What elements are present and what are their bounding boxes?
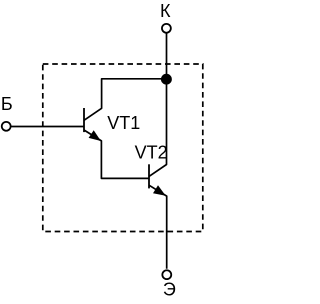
Darlington pair circuit schematic (0, 0, 209, 299)
terminal Б circle (2, 122, 11, 131)
transistor VT2 (149, 164, 167, 268)
wire: К terminal down through junction, VT2 collector (149, 33, 167, 177)
VT2 base bar (148, 164, 150, 188)
VT1 emitter diagonal (84, 130, 149, 178)
terminal К circle (162, 24, 171, 33)
svg-text:VT2: VT2 (135, 143, 168, 163)
wire: Б terminal to VT1 base (11, 126, 84, 128)
VT2 emitter diagonal (149, 185, 167, 269)
svg-text:К: К (160, 1, 171, 21)
svg-text:VT1: VT1 (107, 113, 140, 133)
transistor VT1 (84, 108, 149, 178)
svg-text:Э: Э (163, 280, 176, 299)
svg-text:Б: Б (1, 94, 13, 114)
wire: VT1 collector up and right to junction (84, 79, 167, 121)
dashed component outline box (43, 64, 203, 232)
VT1 emitter arrowhead (89, 130, 101, 141)
junction node dot (161, 74, 172, 85)
VT2 emitter arrowhead (153, 185, 166, 195)
terminal Э circle (162, 270, 171, 279)
VT1 base bar (83, 108, 85, 132)
